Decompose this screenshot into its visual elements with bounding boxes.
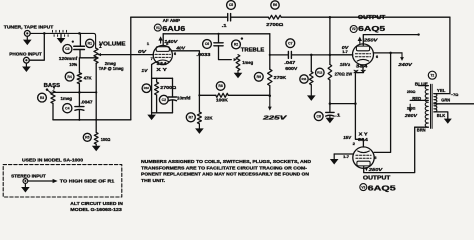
svg-text:C5: C5	[229, 3, 233, 7]
svg-text:R12: R12	[317, 71, 323, 75]
voltage 15V at V2 cathode	[340, 62, 349, 67]
svg-text:R11: R11	[302, 77, 307, 81]
resistor R7 22K	[186, 95, 213, 124]
wire: stereo input to R1 (arrow)	[28, 179, 57, 183]
wire: V2 plate to transformer	[363, 33, 420, 45]
label OUTPUT (V2)	[358, 15, 386, 21]
note: ALT CIRCUIT USED IN	[70, 201, 123, 206]
voltage 15V at V3 cathode	[343, 135, 352, 140]
junction: R4/C4 node	[78, 91, 81, 94]
svg-text:BLUE: BLUE	[415, 81, 428, 86]
capacitor C5 .1	[222, 1, 236, 29]
lead BRN (primary bottom)	[415, 127, 429, 132]
svg-text:.1: .1	[335, 112, 341, 117]
svg-text:2700Ω: 2700Ω	[266, 22, 284, 27]
wire: V1 screen to divider	[171, 51, 200, 96]
note: USED IN MODEL SA-1000	[22, 158, 83, 163]
resistor R8 100K	[199, 82, 269, 103]
svg-text:.0047: .0047	[81, 99, 94, 104]
capacitor C3 120mmf	[59, 33, 85, 66]
label OUTPUT (V3)	[363, 176, 391, 182]
resistor R5 100ohm	[83, 132, 110, 144]
pin 2 V3	[353, 142, 355, 146]
svg-text:250Ω: 250Ω	[407, 89, 416, 94]
ground at BLK lead	[444, 119, 452, 124]
svg-text:RED: RED	[412, 96, 421, 101]
junction: C4 at bottom bus	[78, 119, 80, 121]
pin 6 V1	[174, 52, 176, 56]
wire: bus drop to V2 grid	[329, 17, 331, 55]
ground at phono input	[22, 63, 31, 72]
resistor R9 270K	[254, 69, 287, 96]
wire: V2 cathode to shared bias node	[355, 65, 363, 147]
svg-text:USED IN MODEL SA-1000: USED IN MODEL SA-1000	[22, 158, 83, 163]
ground below C8	[326, 116, 335, 124]
svg-text:R4: R4	[67, 75, 71, 79]
pins 1-7 V3	[343, 155, 349, 159]
wire: V3 grid to ground	[334, 153, 353, 155]
node: phono input label	[9, 51, 42, 56]
svg-text:1-7: 1-7	[342, 50, 348, 54]
svg-text:270Ω 2W: 270Ω 2W	[335, 71, 353, 76]
svg-text:1: 1	[147, 42, 149, 46]
svg-text:10%: 10%	[69, 62, 77, 67]
svg-text:R8: R8	[218, 84, 222, 88]
svg-text:2700Ω: 2700Ω	[160, 85, 177, 90]
svg-text:0V: 0V	[138, 49, 147, 54]
wire: input line to volume control	[30, 33, 95, 48]
wire: V3 screen lead	[374, 53, 390, 152]
svg-text:TUNER, TAPE INPUT: TUNER, TAPE INPUT	[4, 24, 54, 30]
svg-text:240V: 240V	[397, 62, 413, 67]
wire: C3/R4 node to volume pot top	[80, 57, 96, 59]
resistor R6 2700ohm	[266, 1, 284, 27]
wire: cathode node to tubes	[330, 103, 356, 105]
svg-text:STEREO INPUT: STEREO INPUT	[11, 173, 46, 178]
svg-text:22K: 22K	[205, 116, 214, 121]
wire: V3 plate to transformer	[364, 127, 415, 172]
svg-text:270K: 270K	[274, 75, 287, 80]
svg-text:2: 2	[348, 63, 350, 67]
svg-text:V1: V1	[156, 26, 160, 30]
svg-text:6: 6	[174, 52, 176, 56]
voltage 1V at V1 cathode	[141, 68, 148, 73]
svg-text:250V: 250V	[363, 38, 379, 43]
node label 0V at V1 grid	[138, 49, 147, 54]
svg-text:47K: 47K	[84, 76, 93, 81]
wire: phono jack riser to input line	[29, 33, 44, 60]
ground below R7	[195, 124, 204, 134]
shield hatching on input wire	[53, 30, 69, 36]
wire: V1 cathode down	[152, 62, 157, 113]
voltage 40V at V1 screen	[175, 46, 185, 51]
ground at stereo input	[21, 184, 30, 193]
svg-text:THE UNIT.: THE UNIT.	[141, 178, 165, 184]
potentiometer R3 BASS 1meg	[38, 86, 73, 119]
secondary impedance 7ohm	[451, 92, 459, 97]
svg-text:−7Ω: −7Ω	[451, 92, 459, 97]
svg-text:.047: .047	[284, 60, 296, 65]
tube designator V1	[154, 24, 161, 31]
junction: screen rail	[389, 52, 392, 55]
junction: bus to V2 grid branch	[329, 16, 332, 19]
wire: cathode network top rail	[152, 77, 173, 79]
heater supply X Y V2	[353, 69, 366, 74]
svg-text:40V: 40V	[175, 46, 185, 51]
svg-text:3&4: 3&4	[356, 64, 368, 69]
junction: C7 tap	[269, 54, 271, 56]
heater pins 3&4 V3	[358, 137, 369, 142]
lead BLUE (primary top)	[415, 81, 429, 86]
capacitor C2 10mfd	[159, 78, 190, 113]
svg-text:OUTPUT: OUTPUT	[358, 15, 386, 21]
tube designator V2	[350, 26, 357, 33]
svg-text:BRN: BRN	[417, 127, 426, 132]
svg-text:X Y: X Y	[156, 67, 167, 72]
svg-text:VOLUME: VOLUME	[99, 41, 126, 47]
wire: cathode network bottom rail	[152, 112, 173, 114]
svg-text:100K: 100K	[216, 98, 229, 103]
junction: V2 grid	[329, 54, 332, 57]
svg-text:3&4: 3&4	[358, 137, 369, 142]
note paragraph: numbers assigned	[141, 159, 312, 184]
svg-text:280Ω: 280Ω	[407, 105, 416, 110]
wire: V2 grid lead	[330, 54, 353, 56]
capacitor C7 .047 600V	[270, 39, 353, 71]
wire: volume wiper to V1 grid	[101, 54, 154, 56]
svg-text:600V: 600V	[285, 66, 297, 71]
junction: cathode return node	[329, 102, 332, 105]
label BASS	[44, 83, 61, 89]
pin 6 V2	[376, 55, 378, 59]
transformer T2 secondary	[434, 94, 437, 112]
capacitor C4 .0047	[63, 92, 93, 119]
phono input jack J2	[24, 57, 30, 63]
lead RED (primary CT)	[410, 96, 428, 101]
voltage 140V at V1 plate	[158, 36, 178, 44]
heater supply X Y V3	[359, 131, 368, 136]
svg-text:2: 2	[353, 142, 355, 146]
note: MODEL G-1606S-123	[70, 207, 122, 212]
junction: volume leg at bottom bus	[95, 119, 97, 121]
B+ feed 260V at primary CT	[404, 104, 418, 118]
junction: C3 tap on input wire	[78, 32, 81, 35]
svg-text:1-7: 1-7	[343, 155, 349, 159]
svg-text:6AQ5: 6AQ5	[358, 24, 386, 33]
junction: R9/R8 at B+ feed	[269, 94, 272, 97]
svg-text:NUMBERS ASSIGNED TO COILS, SWI: NUMBERS ASSIGNED TO COILS, SWITCHES, PLU…	[141, 159, 312, 165]
lead GRN (secondary output)	[434, 98, 474, 104]
svg-text:120mmf: 120mmf	[59, 56, 78, 61]
svg-text:AF AMP: AF AMP	[163, 18, 181, 23]
capacitor C8 .1	[314, 104, 341, 121]
wire: plate node drop	[269, 34, 271, 69]
pin 1 V1	[147, 42, 149, 46]
resistor R11 grid leak	[300, 54, 313, 85]
label STEREO INPUT	[11, 173, 46, 178]
svg-text:C3: C3	[65, 47, 69, 51]
lead BLK (secondary ground)	[434, 112, 448, 119]
stereo input jack	[23, 179, 28, 184]
primary resistance 250ohm	[407, 89, 416, 94]
transformer T2 primary	[425, 86, 428, 128]
ground below R5	[92, 144, 101, 151]
resistor R4 47K	[65, 58, 92, 93]
potentiometer R2 TREBLE 1meg	[232, 37, 265, 70]
junction: bias node at cathode rail	[354, 102, 357, 105]
transformer T2 core	[431, 84, 433, 128]
pin 6 V3	[374, 156, 376, 160]
svg-text:OUTPUT: OUTPUT	[363, 176, 391, 182]
svg-text:1meg: 1meg	[242, 60, 253, 65]
junction: bass wire at volume leg	[95, 91, 97, 93]
resistor R12 270ohm 2W	[316, 55, 353, 104]
svg-text:C8: C8	[317, 114, 321, 118]
label 6AQ5 (V3)	[368, 184, 397, 193]
svg-text:6: 6	[374, 156, 376, 160]
resistor R10 2700ohm	[142, 78, 177, 113]
wire: bass pot to volume pot leg	[53, 91, 96, 93]
svg-text:R3: R3	[40, 96, 44, 100]
label AF AMP	[163, 18, 181, 23]
svg-text:100Ω: 100Ω	[101, 137, 111, 142]
svg-text:V3: V3	[361, 185, 365, 189]
svg-text:C4: C4	[65, 106, 69, 110]
wire: feedback/coupling bus	[131, 17, 450, 120]
pin 5 V1	[166, 42, 168, 46]
svg-text:X Y: X Y	[359, 131, 368, 136]
junction: C6 tap on plate wire	[217, 33, 219, 35]
ground below R11	[307, 85, 316, 101]
svg-text:BASS: BASS	[44, 83, 61, 89]
svg-text:C2: C2	[162, 98, 166, 102]
svg-text:.0033: .0033	[196, 52, 211, 57]
heater pins 3&4 V2	[356, 64, 368, 69]
svg-text:R10: R10	[144, 86, 150, 90]
svg-text:5: 5	[166, 42, 168, 46]
wire: V2 screen lead	[373, 52, 402, 54]
heater pins 3&4 V1	[157, 61, 168, 66]
ground at V3 grid	[330, 154, 339, 165]
svg-text:TRANSFORMERS ARE TO FACILITATE: TRANSFORMERS ARE TO FACILITATE CIRCUIT T…	[141, 165, 307, 171]
svg-text:V2: V2	[352, 27, 356, 31]
svg-text:225V: 225V	[261, 115, 287, 121]
wire: bottom return bus	[53, 119, 131, 121]
pin 2 V2	[348, 63, 350, 67]
ground at tuner input	[23, 36, 32, 45]
svg-text:7: 7	[151, 57, 153, 61]
tube designator V3	[360, 184, 367, 191]
svg-text:YEL: YEL	[437, 88, 446, 93]
svg-text:260V: 260V	[404, 113, 418, 118]
tuner/tape input jack J1	[24, 31, 30, 37]
B+ feed 240V at screens	[397, 53, 413, 67]
transformer designator T2	[428, 71, 436, 79]
primary resistance 280ohm	[407, 105, 416, 110]
node: tuner/tape input label	[4, 24, 54, 30]
svg-text:PONENT REPLACEMENT AND MAY NOT: PONENT REPLACEMENT AND MAY NOT NECESSARI…	[141, 172, 310, 178]
junction: phono/tuner	[43, 32, 46, 35]
ground at input shield	[57, 33, 66, 43]
potentiometer R1 VOLUME 2meg	[86, 39, 127, 132]
svg-text:15V: 15V	[343, 135, 352, 140]
svg-text:TREBLE: TREBLE	[241, 48, 265, 54]
svg-text:PHONO INPUT: PHONO INPUT	[9, 51, 42, 56]
svg-text:10mfd: 10mfd	[177, 96, 191, 101]
label 6AQ5 (V2)	[358, 24, 386, 33]
svg-text:R9: R9	[257, 75, 261, 79]
label 6AU6	[162, 24, 185, 33]
svg-text:R6: R6	[273, 3, 277, 7]
pins 1-7 V2	[342, 50, 348, 54]
tube V1 6AU6 envelope	[153, 45, 172, 64]
svg-text:1V: 1V	[141, 68, 148, 73]
capacitor C6 .0033	[196, 34, 231, 60]
svg-text:TO HIGH SIDE OF R1: TO HIGH SIDE OF R1	[60, 179, 115, 184]
svg-text:MODEL G-1606S-123: MODEL G-1606S-123	[70, 207, 122, 212]
svg-text:6AQ5: 6AQ5	[368, 184, 397, 193]
svg-text:TAP @ 1meg: TAP @ 1meg	[99, 66, 124, 71]
svg-text:6: 6	[376, 55, 378, 59]
ground below treble pot	[234, 71, 243, 79]
voltage 250V at V3 plate	[365, 167, 384, 172]
ground below V1 cathode network	[147, 113, 156, 120]
tube V3 6AQ5 envelope	[353, 147, 374, 168]
svg-text:C7: C7	[288, 41, 292, 45]
svg-text:.1: .1	[222, 23, 228, 28]
svg-text:R2: R2	[234, 43, 238, 47]
tube V2 6AQ5 envelope	[353, 44, 374, 65]
svg-text:BLK: BLK	[437, 113, 446, 118]
pin 7 V1	[151, 57, 153, 61]
heater supply X Y V1	[156, 67, 167, 72]
svg-text:3&4: 3&4	[157, 61, 168, 66]
svg-text:R5: R5	[85, 136, 89, 140]
lead YEL (secondary top, feedback)	[434, 88, 450, 93]
label 0V at V2 grid	[342, 45, 350, 50]
svg-text:ALT CIRCUIT USED IN: ALT CIRCUIT USED IN	[70, 201, 123, 206]
label TO HIGH SIDE OF R1	[60, 179, 115, 184]
svg-text:6AU6: 6AU6	[162, 24, 185, 33]
svg-text:R7: R7	[189, 116, 193, 120]
svg-text:C6: C6	[205, 42, 209, 46]
wire: V1 plate to coupling node	[163, 34, 270, 46]
voltage 250V at V2 plate	[358, 37, 379, 44]
svg-text:1meg: 1meg	[61, 96, 73, 101]
svg-text:T2: T2	[430, 73, 434, 77]
junction: screen divider	[198, 94, 200, 96]
dashed box: stereo input alternate	[3, 165, 122, 197]
svg-text:GRN: GRN	[441, 98, 450, 103]
svg-text:250V: 250V	[368, 167, 384, 172]
svg-text:R1: R1	[88, 42, 92, 46]
B+ feed 225V	[261, 96, 287, 122]
